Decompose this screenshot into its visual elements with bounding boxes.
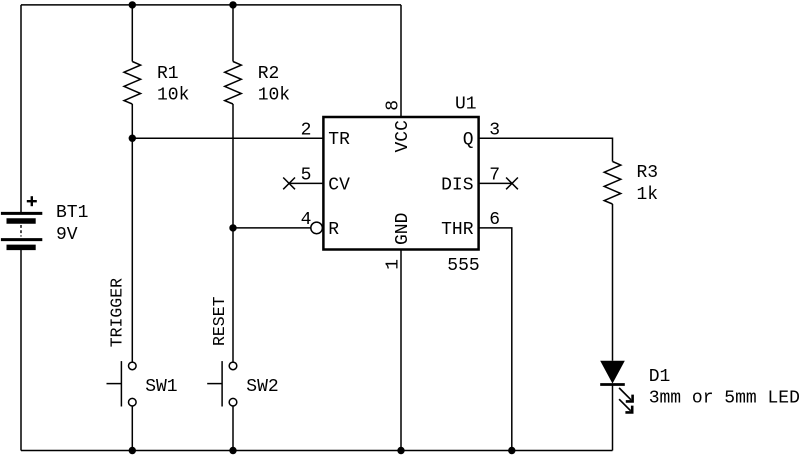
svg-text:VCC: VCC	[393, 120, 413, 153]
svg-text:U1: U1	[455, 94, 477, 114]
junction node bottom THR	[508, 447, 515, 454]
op-amp U1 555 body	[323, 117, 478, 250]
svg-text:9V: 9V	[56, 225, 78, 245]
no-connect cross CV	[283, 178, 295, 190]
label BT1 value	[56, 203, 88, 245]
LED D1 triangle and cathode	[600, 361, 625, 385]
wire TR node down to SW1	[131, 138, 133, 361]
wire left rail upper (top rail to battery +)	[20, 5, 22, 213]
svg-text:1: 1	[383, 259, 403, 270]
svg-text:DIS: DIS	[441, 175, 473, 195]
wire R3 bottom to LED D1	[612, 204, 614, 361]
svg-text:1k: 1k	[637, 185, 659, 205]
svg-text:4: 4	[301, 210, 312, 230]
wire THR net pin 6 to bottom rail	[479, 228, 512, 451]
no-connect cross DIS	[506, 178, 518, 190]
svg-text:R1: R1	[157, 64, 179, 84]
wire SW1 bottom	[131, 406, 133, 451]
svg-text:GND: GND	[393, 213, 413, 245]
svg-text:SW2: SW2	[246, 377, 278, 397]
wire left rail lower (battery - to bottom rail)	[20, 250, 22, 451]
junction node bottom GND	[397, 447, 404, 454]
svg-text:7: 7	[489, 166, 500, 186]
svg-text:3mm or 5mm LED: 3mm or 5mm LED	[649, 389, 800, 409]
junction node bottom SW1	[129, 447, 136, 454]
svg-text:CV: CV	[328, 175, 350, 195]
svg-text:SW1: SW1	[145, 377, 177, 397]
wire LED D1 to bottom rail	[612, 386, 614, 451]
switch SW1 actuator	[120, 361, 122, 406]
svg-text:BT1: BT1	[56, 203, 88, 223]
wire R net (node to pin 4 bubble)	[233, 227, 311, 229]
switch SW1 contacts	[129, 362, 137, 370]
svg-text:THR: THR	[441, 220, 474, 240]
pin 4 inversion bubble	[311, 222, 323, 234]
svg-text:8: 8	[383, 100, 403, 111]
junction node TR	[129, 135, 136, 142]
LED D1 light arrows	[619, 388, 633, 413]
label R1 value	[157, 64, 189, 106]
resistor R2	[225, 62, 242, 105]
wire TR net (node to pin 2)	[132, 137, 323, 139]
label R2 value	[258, 64, 290, 106]
battery BT1	[1, 213, 42, 247]
svg-text:10k: 10k	[157, 86, 189, 106]
wire R1 top (top rail to R1)	[131, 5, 133, 62]
svg-text:TRIGGER: TRIGGER	[107, 278, 126, 347]
wire DIS stub pin 7	[479, 182, 512, 184]
wire top rail	[21, 4, 401, 6]
svg-text:6: 6	[489, 210, 500, 230]
svg-text:2: 2	[301, 121, 312, 141]
junction node R	[229, 224, 236, 231]
wire VCC drop from top rail to pin 8	[400, 5, 402, 117]
svg-text:3: 3	[489, 121, 500, 141]
resistor R3	[604, 162, 621, 205]
junction node bottom SW2	[229, 447, 236, 454]
wire Q net pin 3 to R3	[479, 138, 613, 161]
svg-text:R2: R2	[258, 64, 280, 84]
svg-text:555: 555	[447, 256, 479, 276]
resistor R1	[124, 62, 141, 105]
wire GND pin 1 to bottom rail	[400, 250, 402, 451]
svg-text:5: 5	[301, 166, 312, 186]
svg-text:RESET: RESET	[210, 296, 229, 346]
svg-text:R: R	[328, 220, 339, 240]
label D1 value	[649, 367, 800, 409]
wire R2 top (top rail to R2)	[232, 5, 234, 62]
svg-text:TR: TR	[328, 130, 350, 150]
svg-text:Q: Q	[463, 130, 474, 150]
switch SW2 contacts	[229, 362, 237, 370]
wire CV stub pin 5	[289, 182, 323, 184]
svg-text:10k: 10k	[258, 86, 290, 106]
svg-text:R3: R3	[637, 163, 659, 183]
wire R2 bottom down through to R node and SW2	[232, 104, 234, 362]
wire R1 bottom to TR node	[131, 104, 133, 138]
svg-text:D1: D1	[649, 367, 671, 387]
junction node top R1	[129, 1, 136, 8]
wire SW2 bottom	[232, 406, 234, 451]
battery plus sign	[27, 196, 37, 206]
switch SW2 actuator	[221, 361, 223, 406]
wire bottom rail	[21, 450, 613, 452]
label R3 value	[637, 163, 659, 205]
junction node top R2	[229, 1, 236, 8]
